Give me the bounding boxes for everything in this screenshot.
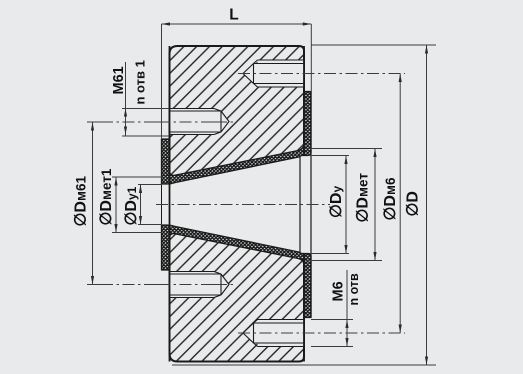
body left face line bbox=[169, 46, 171, 362]
bore mouth line right inner bbox=[299, 156, 301, 254]
L dim bbox=[162, 23, 312, 25]
dDm6 dim bbox=[399, 74, 401, 334]
svg-text:n отв 1: n отв 1 bbox=[133, 60, 148, 104]
hole top-right M6 outline bbox=[243, 60, 304, 87]
hole bottom-left M61 interior bbox=[170, 272, 230, 298]
svg-text:∅Dy: ∅Dy bbox=[328, 186, 345, 219]
svg-text:∅Dм61: ∅Dм61 bbox=[73, 176, 90, 227]
centerline hole TR bbox=[238, 73, 405, 75]
body right face line (lower) bbox=[303, 254, 305, 362]
svg-text:М6: М6 bbox=[331, 281, 347, 301]
L arrows bbox=[162, 22, 171, 25]
dDm6 arrows bbox=[399, 74, 402, 83]
hole top-left M61 interior bbox=[170, 109, 230, 135]
body right face line (upper) bbox=[303, 46, 305, 156]
centerlines bbox=[87, 74, 405, 334]
svg-text:L: L bbox=[229, 7, 238, 24]
centerline hole TL bbox=[87, 121, 235, 123]
dDy dim bbox=[345, 156, 347, 254]
lining right face line bbox=[310, 92, 312, 318]
svg-text:n отв: n отв bbox=[347, 273, 361, 306]
bore + lining clearing bbox=[162, 92, 312, 318]
dDmet arrows bbox=[373, 149, 376, 158]
dD arrows bbox=[425, 45, 428, 54]
hole bottom-right M6 outline bbox=[243, 320, 304, 347]
svg-text:М61: М61 bbox=[111, 66, 127, 94]
dDm61 arrows bbox=[91, 122, 94, 131]
hole bottom-left M61 outline bbox=[170, 272, 230, 298]
hole top-right M6 interior bbox=[243, 60, 304, 87]
hole top-left M61 outline bbox=[170, 109, 230, 135]
dD dim bbox=[426, 45, 428, 365]
svg-text:∅Dм6: ∅Dм6 bbox=[382, 177, 399, 220]
dDy1 arrows bbox=[139, 185, 142, 194]
body (steel, hatched) bbox=[170, 46, 305, 362]
svg-text:∅D: ∅D bbox=[405, 191, 422, 217]
dDy arrows bbox=[344, 156, 347, 165]
arrowheads bbox=[91, 22, 428, 365]
svg-text:∅Dy1: ∅Dy1 bbox=[123, 186, 140, 225]
dDmet dim bbox=[374, 149, 376, 261]
bore mouth line left bbox=[161, 184, 163, 225]
lining bottom (cross-hatched) bbox=[162, 225, 312, 318]
dDy1 dim bbox=[140, 185, 142, 225]
dDmet1 arrows bbox=[114, 177, 117, 186]
hole bottom-right M6 interior bbox=[243, 320, 304, 347]
main centerline bbox=[156, 204, 330, 206]
M61 dim leader bbox=[125, 62, 127, 136]
centerline hole BL bbox=[87, 284, 235, 286]
dimension / extension lines bbox=[93, 24, 437, 365]
M61 arrows bbox=[124, 109, 127, 117]
svg-text:∅Dмет1: ∅Dмет1 bbox=[98, 168, 115, 225]
svg-text:∅Dмет: ∅Dмет bbox=[355, 173, 372, 223]
dDmet1 dim bbox=[115, 177, 117, 233]
M6 arrows bbox=[345, 320, 348, 329]
lining top (cross-hatched) bbox=[162, 92, 312, 185]
centerline hole BR bbox=[238, 332, 405, 334]
M6 dim bbox=[346, 270, 348, 347]
dDm61 dim bbox=[92, 122, 94, 285]
